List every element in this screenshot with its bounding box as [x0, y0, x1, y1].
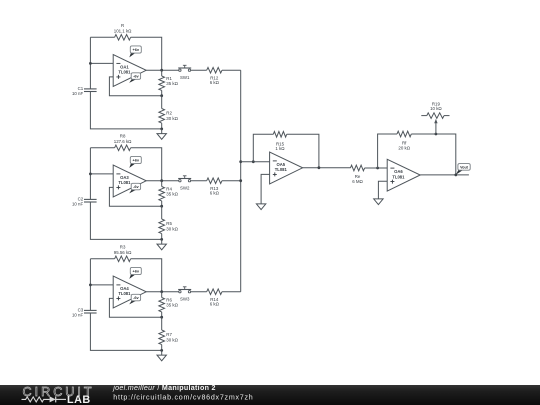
svg-text:TL081: TL081: [275, 167, 288, 172]
switch SW1: [178, 65, 191, 80]
wire stage3 to bus: [222, 291, 241, 293]
svg-text:6 kΩ: 6 kΩ: [210, 191, 220, 196]
net flag Vout: [456, 164, 470, 175]
wire: [90, 147, 114, 149]
wire op-amp output: [146, 69, 179, 71]
wire: [131, 148, 162, 181]
ground: [157, 239, 166, 249]
wire non-inverting feedback: [109, 77, 161, 96]
CircuitLab logo CIRCUIT: [23, 385, 95, 399]
wire: [131, 259, 162, 292]
svg-text:6 MΩ: 6 MΩ: [352, 179, 363, 184]
svg-text:10 nF: 10 nF: [72, 313, 84, 318]
resistor R7: [159, 317, 179, 350]
op-amp OA3: [113, 165, 146, 197]
resistor Re: [350, 165, 364, 184]
svg-text:6 kΩ: 6 kΩ: [210, 302, 220, 307]
potentiometer R19: [421, 101, 449, 134]
node ground junction: [160, 238, 163, 241]
wire: [90, 202, 161, 239]
svg-text:joel.meilleur / Manipulation 2: joel.meilleur / Manipulation 2: [112, 384, 215, 392]
node R19 wiper tap: [435, 133, 438, 136]
wire: [191, 291, 207, 293]
svg-text:30 kΩ: 30 kΩ: [166, 226, 178, 231]
op-amp OA1: [113, 55, 146, 87]
svg-text:1 kΩ: 1 kΩ: [275, 146, 285, 151]
resistor R4: [159, 181, 179, 207]
op-amp OA5: [270, 152, 303, 184]
svg-text:101.1 kΩ: 101.1 kΩ: [114, 28, 132, 33]
svg-text:-6v: -6v: [133, 74, 139, 79]
power flag +6v: [129, 156, 141, 168]
svg-text:LAB: LAB: [67, 394, 91, 405]
resistor R15: [273, 132, 286, 152]
node OA6 input: [376, 167, 379, 170]
resistor R13: [207, 178, 222, 196]
wire: [90, 62, 113, 64]
wire OA5 noninverting to ground: [261, 174, 270, 204]
node output: [160, 290, 163, 293]
wire: [90, 92, 161, 129]
resistor R3: [114, 244, 132, 261]
svg-text:20 kΩ: 20 kΩ: [398, 145, 410, 150]
node OA5 output: [318, 166, 321, 169]
svg-text:+6v: +6v: [132, 47, 139, 52]
node divider junction: [160, 205, 163, 208]
wire: [89, 148, 91, 200]
svg-text:10 kΩ: 10 kΩ: [430, 106, 442, 111]
capacitor C2: [72, 197, 97, 207]
node inverting input junction: [89, 62, 92, 65]
svg-text:127.6 kΩ: 127.6 kΩ: [114, 139, 132, 144]
svg-text:-6v: -6v: [133, 295, 139, 300]
resistor R: [114, 23, 132, 40]
svg-text:10 nF: 10 nF: [72, 91, 84, 96]
svg-text:-6v: -6v: [133, 184, 139, 189]
wire: [89, 37, 91, 89]
node ground junction: [160, 127, 163, 130]
svg-text:R3: R3: [120, 244, 126, 249]
ground: [157, 350, 166, 360]
wire: [191, 69, 207, 71]
CircuitLab logo resistor-diode glyph: [22, 396, 67, 402]
svg-text:SW2: SW2: [180, 185, 190, 190]
power flag +6v: [129, 46, 141, 58]
node divider junction: [160, 316, 163, 319]
svg-text:6 kΩ: 6 kΩ: [210, 80, 220, 85]
wire: [191, 180, 207, 182]
footer url: [113, 393, 253, 401]
svg-text:TL081: TL081: [118, 180, 131, 185]
node inverting input junction: [89, 284, 92, 287]
svg-text:+6v: +6v: [132, 269, 139, 274]
power flag +6v: [129, 267, 141, 279]
CircuitLab logo LAB: [67, 394, 91, 405]
wire op-amp output: [146, 291, 179, 293]
wire: [131, 37, 162, 70]
svg-text:http://circuitlab.com/cv86dx7z: http://circuitlab.com/cv86dx7zmx7zh: [113, 393, 253, 401]
op-amp OA4: [113, 276, 146, 308]
wire op-amp output: [146, 180, 179, 182]
node bus stage2: [239, 179, 242, 182]
wire: [90, 258, 114, 260]
svg-text:30 kΩ: 30 kΩ: [166, 116, 178, 121]
node ground junction: [160, 349, 163, 352]
wire: [90, 313, 161, 350]
resistor R1: [159, 70, 179, 96]
node feedback tap: [252, 160, 255, 163]
node Vout: [454, 174, 457, 177]
power flag -6v: [129, 73, 140, 83]
svg-text:35 kΩ: 35 kΩ: [166, 303, 178, 308]
wire non-inverting feedback: [109, 187, 161, 206]
resistor Rf: [397, 131, 411, 150]
svg-text:R8: R8: [120, 133, 126, 138]
wire OA6 feedback loop: [378, 134, 397, 168]
wire: [90, 173, 113, 175]
svg-text:30 kΩ: 30 kΩ: [166, 337, 178, 342]
wire OA5 feedback loop right: [287, 134, 319, 167]
svg-text:95.56 kΩ: 95.56 kΩ: [114, 250, 132, 255]
wire bus to OA5 inverting input: [241, 161, 270, 163]
svg-text:35 kΩ: 35 kΩ: [166, 81, 178, 86]
svg-text:TL081: TL081: [118, 70, 131, 75]
resistor R14: [207, 289, 222, 307]
wire OA5 feedback loop: [253, 134, 273, 161]
wire OA6 noninverting to ground: [378, 181, 387, 199]
svg-text:10 nF: 10 nF: [72, 202, 84, 207]
wire OA6 feedback right: [411, 134, 456, 175]
node inverting input junction: [89, 173, 92, 176]
node output: [160, 179, 163, 182]
resistor R8: [114, 133, 132, 150]
capacitor C1: [72, 86, 97, 96]
switch SW3: [178, 287, 191, 302]
footer bar: [0, 385, 540, 405]
resistor R5: [159, 206, 179, 239]
wire: [89, 259, 91, 311]
wire non-inverting feedback: [109, 298, 161, 317]
switch SW2: [178, 176, 191, 191]
resistor R12: [207, 67, 222, 85]
resistor R2: [159, 96, 179, 129]
svg-text:35 kΩ: 35 kΩ: [166, 192, 178, 197]
svg-text:Vout: Vout: [460, 165, 469, 169]
wire stage1 to bus: [222, 69, 241, 71]
wire Re to OA6: [365, 167, 388, 169]
wire: [90, 284, 113, 286]
node divider junction: [160, 94, 163, 97]
svg-text:SW3: SW3: [180, 296, 190, 301]
ground: [374, 199, 383, 205]
svg-text:R: R: [121, 23, 124, 28]
wire summing bus: [240, 70, 242, 292]
node bus to OA5: [239, 160, 242, 163]
wire OA6 output: [420, 174, 469, 176]
capacitor C3: [72, 308, 97, 318]
ground: [157, 129, 166, 139]
svg-text:SW1: SW1: [180, 75, 190, 80]
op-amp OA6: [387, 159, 420, 191]
resistor R6: [159, 292, 179, 318]
svg-text:TL081: TL081: [118, 291, 131, 296]
svg-text:+6v: +6v: [132, 158, 139, 163]
ground: [256, 204, 265, 210]
power flag -6v: [129, 183, 140, 193]
node output: [160, 69, 163, 72]
svg-text:TL081: TL081: [392, 174, 405, 179]
footer title: [112, 384, 215, 392]
wire: [90, 36, 114, 38]
power flag -6v: [129, 294, 140, 304]
wire stage2 to bus: [222, 180, 241, 182]
wire OA5 output: [303, 167, 351, 169]
